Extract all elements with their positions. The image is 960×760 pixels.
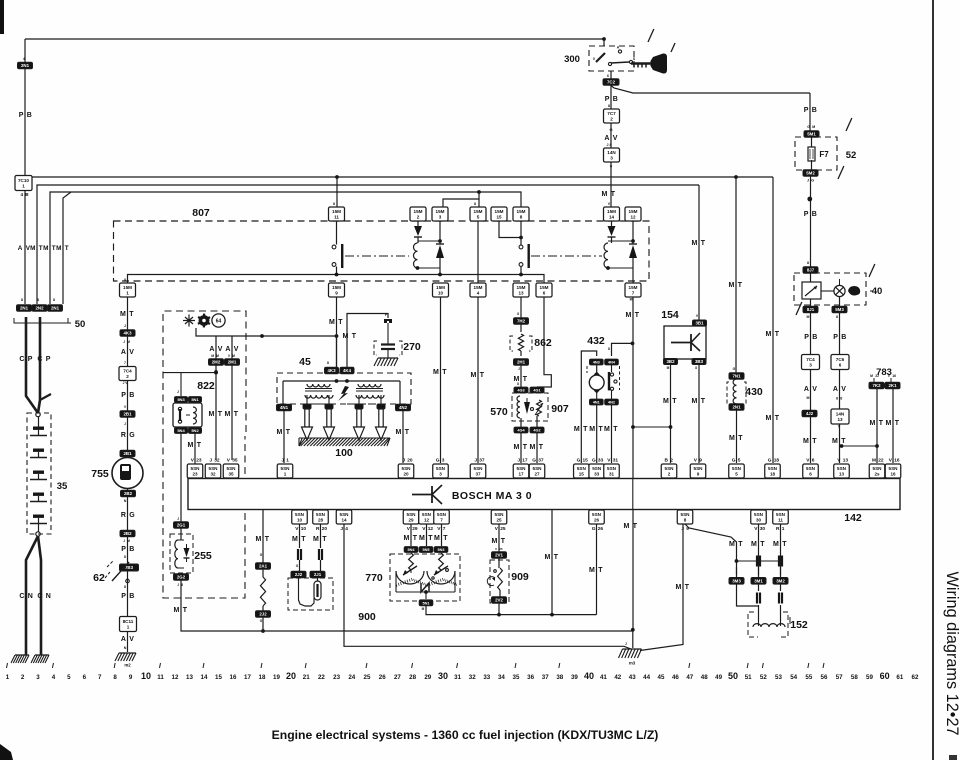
connector 14N-3: [604, 143, 620, 162]
wire 255 to bus: [174, 581, 263, 632]
svg-text:T: T: [183, 607, 188, 614]
wire 5SN28 col: [313, 524, 327, 548]
resistor 900: [260, 569, 265, 611]
svg-text:26: 26: [598, 526, 604, 532]
svg-text:T: T: [782, 541, 787, 548]
svg-text:M: M: [630, 298, 633, 302]
svg-text:5SN: 5SN: [495, 512, 505, 517]
svg-text:5: 5: [477, 215, 480, 220]
svg-text:2N1: 2N1: [21, 63, 30, 68]
wire 15M6 to 907: [537, 297, 551, 387]
connector 4G3: [514, 382, 528, 393]
wire icons to 15M9 column: [196, 328, 338, 338]
wire CP heavy left: [26, 317, 38, 413]
wire 15M5 to 15M4: [477, 221, 479, 284]
svg-text:5SN: 5SN: [191, 466, 201, 471]
wire CN heavy left: [26, 536, 38, 655]
wire 5M2 down: [810, 177, 812, 268]
svg-text:M: M: [277, 429, 283, 436]
unit45 left edge wire: [282, 381, 284, 404]
wire 7H1 down: [514, 365, 528, 387]
svg-text:40: 40: [584, 671, 594, 681]
svg-text:52: 52: [846, 150, 857, 161]
svg-text:2G2: 2G2: [177, 575, 186, 580]
connector 5M1: [804, 125, 819, 137]
connector 7J2: [256, 611, 271, 623]
svg-text:2G1: 2G1: [177, 523, 186, 528]
svg-text:2V1: 2V1: [495, 553, 503, 558]
label MT 152 left: [729, 541, 743, 548]
svg-text:M: M: [692, 398, 698, 405]
svg-text:26: 26: [594, 518, 600, 523]
svg-text:4G4: 4G4: [517, 429, 525, 433]
connector 4N4: [605, 359, 619, 365]
svg-text:29: 29: [412, 526, 418, 532]
label 45: [299, 356, 311, 368]
contact 3M1 lower: [756, 584, 761, 621]
svg-text:13: 13: [186, 674, 193, 681]
wire feed to F7: [809, 93, 811, 131]
svg-text:J: J: [124, 422, 126, 426]
svg-text:N: N: [124, 646, 127, 650]
wire 5SN11 col: [773, 524, 787, 575]
svg-text:61: 61: [896, 674, 903, 681]
injector resistor left: [409, 553, 414, 570]
svg-text:T: T: [443, 535, 448, 542]
svg-text:8: 8: [517, 312, 519, 316]
svg-text:2M1: 2M1: [228, 360, 237, 365]
connector 2G2: [174, 574, 189, 587]
svg-text:B: B: [812, 334, 817, 341]
svg-text:T: T: [286, 429, 291, 436]
svg-text:7C4: 7C4: [123, 369, 132, 374]
svg-text:G: G: [807, 125, 810, 129]
svg-text:5SN: 5SN: [422, 512, 432, 517]
svg-text:15M: 15M: [436, 285, 445, 290]
label MT col2: [30, 245, 43, 252]
wire 2M2 col: [214, 336, 218, 460]
ground m3: [619, 631, 642, 666]
connector 2N1 row: [17, 298, 32, 311]
svg-text:4G3: 4G3: [517, 389, 524, 393]
coil 430: [727, 379, 746, 404]
svg-text:5SN: 5SN: [295, 512, 305, 517]
wire L1 drop to 5SN18: [772, 177, 774, 463]
svg-text:14: 14: [341, 518, 347, 523]
svg-text:M: M: [292, 536, 298, 543]
svg-text:20: 20: [286, 671, 296, 681]
svg-text:T: T: [672, 398, 677, 405]
svg-text:20: 20: [407, 458, 413, 464]
svg-text:8: 8: [327, 361, 329, 365]
wire 5SN29 col: [404, 524, 418, 546]
svg-text:G: G: [129, 512, 135, 519]
sensor resistor 907: [535, 400, 543, 416]
label MT col839: [832, 438, 846, 445]
svg-text:3M2: 3M2: [776, 579, 785, 584]
wire bus1 to 430: [729, 177, 743, 373]
svg-text:44: 44: [643, 674, 650, 681]
svg-text:11: 11: [334, 215, 339, 220]
svg-text:m3: m3: [629, 661, 636, 666]
connector 4G1: [530, 387, 544, 393]
svg-text:6: 6: [607, 74, 609, 78]
svg-text:T: T: [738, 435, 743, 442]
wire col 5M3 down: [839, 312, 841, 463]
label 770: [365, 572, 383, 584]
ECU bottom connectors 5SN: [292, 510, 789, 532]
svg-text:38: 38: [556, 674, 563, 681]
svg-text:52: 52: [760, 674, 767, 681]
svg-text:J: J: [124, 324, 126, 328]
contact 5SN10: [297, 549, 302, 560]
svg-text:5M1: 5M1: [807, 132, 816, 137]
svg-text:T: T: [812, 438, 817, 445]
svg-text:M: M: [343, 333, 349, 340]
label PB switch: [605, 96, 618, 103]
svg-text:M: M: [803, 438, 809, 445]
equipment dashed box: [163, 311, 246, 598]
bus mt lower: [263, 628, 635, 632]
svg-text:15M: 15M: [332, 209, 341, 214]
label 430: [745, 386, 763, 398]
svg-text:270: 270: [403, 341, 421, 353]
svg-text:432: 432: [587, 335, 605, 347]
svg-text:B: B: [129, 593, 134, 600]
scan edge mark bottom-right: [949, 755, 957, 760]
label 909: [511, 571, 529, 583]
svg-text:1: 1: [286, 458, 289, 464]
wire 15M9 col to 4K3: [336, 336, 338, 368]
svg-text:807: 807: [192, 207, 210, 219]
svg-text:M: M: [807, 396, 810, 400]
connector 4K4: [340, 367, 354, 374]
svg-text:2M2: 2M2: [212, 360, 221, 365]
label PB below fuse: [804, 211, 817, 218]
connector 2M2: [209, 354, 224, 365]
battery 35 cells: [30, 417, 47, 533]
wire 15M7 long down: [624, 297, 640, 630]
svg-text:J: J: [177, 390, 179, 394]
label 862: [534, 337, 552, 349]
svg-text:3: 3: [610, 156, 613, 161]
svg-text:6: 6: [543, 291, 546, 296]
svg-text:P: P: [804, 211, 809, 218]
svg-text:M: M: [832, 438, 838, 445]
svg-text:5SN: 5SN: [437, 512, 447, 517]
wire 430 to bar: [729, 410, 743, 463]
svg-text:5SN: 5SN: [340, 512, 350, 517]
svg-text:2K1: 2K1: [888, 383, 897, 388]
svg-text:V: V: [613, 135, 618, 142]
svg-text:P: P: [605, 96, 610, 103]
svg-text:5: 5: [67, 674, 71, 681]
label RG pump col: [121, 422, 135, 439]
label CP: [19, 356, 50, 363]
svg-text:2: 2: [670, 458, 673, 464]
svg-text:V: V: [841, 386, 846, 393]
node battery bottom: [36, 532, 40, 536]
svg-text:T: T: [65, 245, 69, 252]
svg-text:862: 862: [534, 337, 552, 349]
svg-text:2N1: 2N1: [732, 405, 741, 410]
svg-text:T: T: [598, 567, 603, 574]
svg-text:25: 25: [500, 526, 506, 532]
connector 7B1: [120, 450, 135, 457]
wire 5SN26 col: [589, 524, 603, 615]
ignition coil left: [305, 384, 333, 398]
svg-text:M: M: [127, 340, 130, 344]
svg-text:770: 770: [365, 572, 383, 584]
connectors 15M top row: [329, 202, 642, 221]
svg-text:4J2: 4J2: [806, 411, 814, 416]
svg-text:V: V: [234, 346, 239, 353]
inertia switch 62: [105, 555, 139, 583]
svg-text:5N4: 5N4: [408, 548, 416, 552]
svg-text:47: 47: [686, 674, 693, 681]
connector 4N1m: [590, 399, 604, 405]
svg-text:12: 12: [424, 518, 430, 523]
svg-text:17: 17: [244, 674, 251, 681]
svg-text:5SN: 5SN: [837, 466, 847, 471]
svg-text:V: V: [610, 165, 613, 169]
connector 2J1: [310, 560, 325, 578]
svg-text:48: 48: [701, 674, 708, 681]
svg-text:T: T: [701, 398, 706, 405]
svg-text:16: 16: [892, 374, 896, 378]
relay coil K4 diode feed: [608, 221, 616, 243]
svg-text:9: 9: [335, 291, 338, 296]
motor 432: [589, 365, 604, 399]
svg-text:R: R: [316, 526, 320, 532]
connector 5M3: [832, 297, 847, 319]
svg-text:A: A: [225, 346, 230, 353]
dash-dot link K1: [345, 255, 409, 257]
svg-text:3M3: 3M3: [732, 579, 741, 584]
wire accessory feed right: [611, 86, 810, 94]
wire bar drop 552: [545, 510, 559, 615]
svg-text:5SN: 5SN: [474, 466, 484, 471]
relay box 807 dashed: [114, 221, 650, 281]
svg-text:10: 10: [301, 526, 307, 532]
label MT switch col: [602, 191, 616, 198]
svg-text:3B3: 3B3: [695, 359, 704, 364]
svg-text:M: M: [30, 245, 35, 252]
wire 4N1m to bar: [589, 405, 603, 463]
connector 7H1: [514, 359, 529, 371]
switch 300 contacts: [593, 46, 636, 66]
wire switch to 7C2: [610, 71, 612, 79]
svg-text:B: B: [812, 107, 817, 114]
svg-text:T: T: [405, 429, 410, 436]
svg-text:4: 4: [52, 674, 56, 681]
svg-text:M: M: [886, 420, 892, 427]
wire 14N3 down: [610, 162, 613, 208]
svg-text:BOSCH MA 3 0: BOSCH MA 3 0: [452, 490, 532, 502]
wire 770 out: [426, 606, 597, 617]
svg-text:15M: 15M: [436, 209, 445, 214]
svg-text:M: M: [729, 282, 735, 289]
connector 7C7-2: [604, 104, 620, 123]
svg-text:T: T: [501, 538, 506, 545]
connector 5N1: [419, 600, 433, 611]
connector 2M1: [225, 354, 240, 365]
svg-text:11: 11: [157, 674, 164, 681]
svg-text:T: T: [352, 333, 357, 340]
svg-text:28: 28: [318, 518, 324, 523]
svg-text:37: 37: [475, 472, 481, 477]
connector 5N3i: [434, 547, 448, 553]
label PB col839: [833, 334, 846, 341]
connector 5M2: [803, 160, 818, 183]
svg-text:G: G: [532, 458, 536, 464]
wire crossing ECU: [632, 479, 634, 510]
svg-text:55: 55: [805, 674, 812, 681]
svg-text:3B1: 3B1: [695, 321, 704, 326]
fuel pump 755: [112, 458, 143, 489]
svg-text:J 8: J 8: [607, 143, 612, 147]
svg-text:N: N: [28, 593, 33, 600]
svg-text:M: M: [396, 429, 402, 436]
svg-text:T: T: [599, 426, 604, 433]
label MT 4N1: [277, 429, 291, 436]
svg-text:5SN: 5SN: [732, 466, 742, 471]
svg-text:5SN: 5SN: [407, 512, 417, 517]
svg-text:5SN: 5SN: [517, 466, 527, 471]
svg-text:14: 14: [201, 674, 208, 681]
svg-text:64: 64: [216, 319, 222, 325]
wire 15M4 to bar: [471, 297, 485, 463]
svg-text:255: 255: [194, 550, 212, 562]
svg-text:60: 60: [880, 671, 890, 681]
svg-text:51: 51: [745, 674, 752, 681]
svg-text:G: G: [577, 458, 581, 464]
label 154: [661, 309, 679, 321]
connector 5N2: [189, 428, 202, 434]
svg-text:7C6: 7C6: [836, 357, 845, 362]
svg-text:M: M: [751, 541, 757, 548]
svg-text:2: 2: [21, 674, 25, 681]
svg-text:0: 0: [593, 57, 595, 61]
svg-text:5N3: 5N3: [438, 548, 445, 552]
wire 3M3 link: [737, 584, 759, 606]
svg-text:M: M: [872, 458, 876, 464]
svg-text:Wiring diagrams 12•27: Wiring diagrams 12•27: [943, 572, 960, 736]
svg-text:13: 13: [843, 458, 849, 464]
module 255 dashed box: [170, 534, 193, 573]
svg-text:5: 5: [738, 458, 741, 464]
connector 7N1 top: [729, 367, 744, 379]
relay 822 feed: [164, 371, 218, 396]
svg-text:R: R: [121, 512, 126, 519]
svg-text:5N3: 5N3: [177, 397, 185, 402]
wire main battery feed top: [25, 37, 606, 46]
wire 4N2 to bar: [402, 410, 404, 463]
label 432: [587, 335, 605, 347]
plug tower dashes: [292, 403, 394, 405]
sensor coil 570: [517, 396, 520, 418]
svg-text:5SN: 5SN: [681, 512, 691, 517]
svg-text:59: 59: [866, 674, 873, 681]
svg-text:V: V: [218, 346, 223, 353]
relay 822 body: [173, 403, 202, 427]
bus line L1: [30, 175, 773, 179]
svg-text:P: P: [28, 356, 33, 363]
ground battery right: [31, 655, 49, 663]
label PB inertia lower: [121, 585, 134, 600]
connector 4N3: [590, 359, 604, 365]
svg-text:15M: 15M: [332, 285, 341, 290]
svg-text:15M: 15M: [540, 285, 549, 290]
svg-text:M: M: [604, 426, 610, 433]
svg-text:T: T: [633, 523, 638, 530]
label MT 773 col: [766, 331, 780, 422]
svg-text:T: T: [895, 420, 900, 427]
svg-text:50: 50: [75, 319, 86, 330]
svg-text:6: 6: [839, 363, 842, 368]
wire bus L3: [50, 192, 521, 304]
svg-text:4: 4: [477, 291, 480, 296]
svg-text:M: M: [127, 539, 130, 543]
svg-text:2: 2: [417, 215, 420, 220]
svg-text:J: J: [517, 458, 520, 464]
svg-text:54: 54: [790, 674, 797, 681]
svg-text:39: 39: [571, 674, 578, 681]
svg-text:V: V: [812, 386, 817, 393]
svg-text:37: 37: [479, 458, 485, 464]
pot 909 dashed box: [490, 560, 509, 603]
svg-text:M: M: [313, 536, 319, 543]
svg-text:T: T: [129, 311, 134, 318]
wire 4G2 to bar: [530, 416, 544, 463]
svg-text:40: 40: [872, 286, 883, 297]
svg-text:5M2: 5M2: [806, 171, 815, 176]
scan edge mark top-left: [0, 0, 4, 34]
label 755: [91, 468, 109, 480]
svg-text:45: 45: [658, 674, 665, 681]
svg-text:G: G: [592, 526, 596, 532]
svg-text:57: 57: [836, 674, 843, 681]
coil 255: [175, 528, 190, 568]
svg-text:T: T: [738, 282, 743, 289]
svg-text:4G2: 4G2: [533, 429, 540, 433]
wire 7J2 to bus: [261, 617, 265, 633]
svg-text:V: V: [838, 425, 841, 429]
svg-text:909: 909: [511, 571, 529, 583]
ground battery left: [11, 655, 29, 663]
connector 4N2 coil: [396, 404, 411, 411]
icon star: [183, 315, 195, 327]
svg-text:9: 9: [697, 472, 700, 477]
wire 909 out: [498, 603, 500, 615]
flyback diode K4: [629, 221, 637, 268]
svg-text:3M1: 3M1: [754, 579, 763, 584]
svg-text:10: 10: [297, 518, 303, 523]
svg-text:2: 2: [668, 472, 671, 477]
svg-text:8: 8: [695, 366, 697, 370]
svg-text:P: P: [121, 593, 126, 600]
contact 3M2 lower: [778, 584, 783, 621]
svg-text:T: T: [197, 442, 202, 449]
svg-text:8: 8: [474, 202, 476, 206]
relay contact K1: [332, 221, 343, 275]
svg-text:T: T: [322, 536, 327, 543]
svg-text:N: N: [124, 499, 127, 503]
svg-text:31: 31: [609, 472, 615, 477]
svg-text:T: T: [338, 319, 343, 326]
svg-text:T: T: [301, 536, 306, 543]
ECU K symbol: [412, 485, 442, 504]
